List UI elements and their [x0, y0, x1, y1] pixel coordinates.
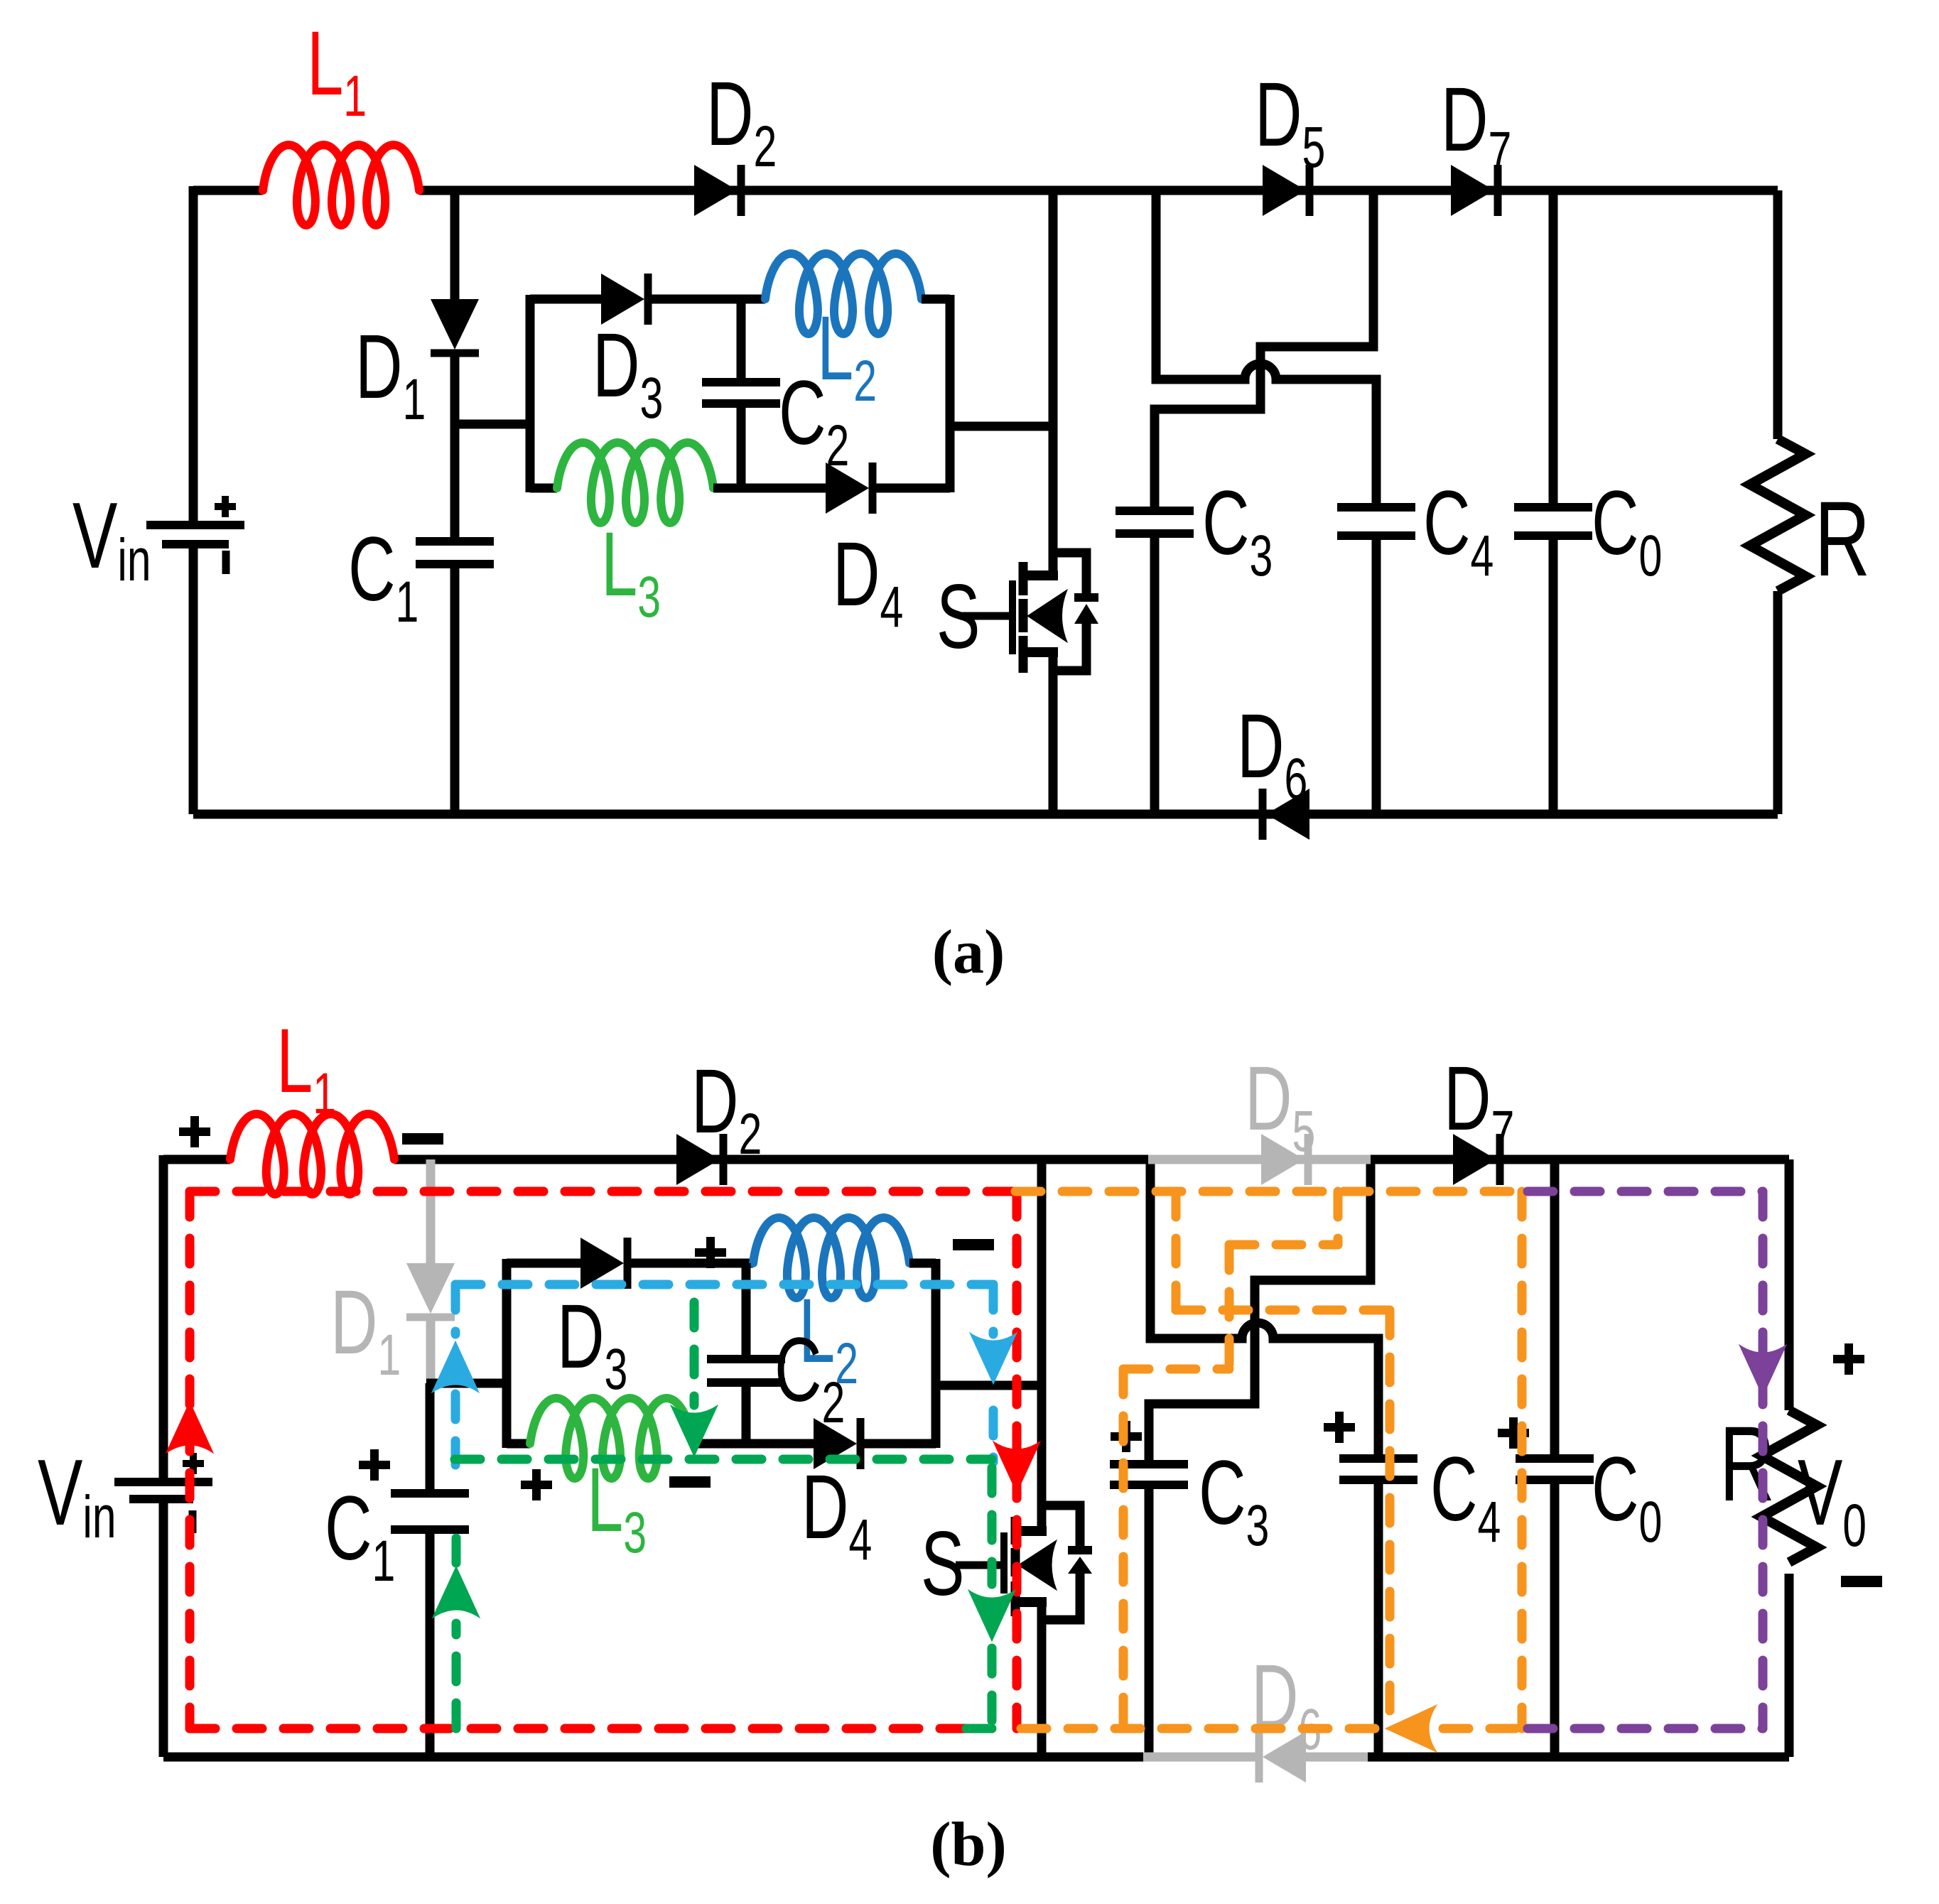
diode D6 [1259, 789, 1267, 840]
body diode [1074, 593, 1098, 602]
top rail wire right [1371, 1155, 1789, 1164]
svg-text:Vin: Vin [38, 1441, 116, 1551]
svg-text:L1: L1 [307, 12, 367, 129]
wire left rail upper [189, 186, 198, 521]
wire link C3 branch to D5-D7 node [1155, 186, 1373, 511]
wire D4 to cell right [873, 484, 950, 493]
diode D2 [676, 1134, 720, 1185]
svg-text:D6: D6 [1237, 695, 1307, 811]
diode D7 [1453, 1134, 1496, 1185]
resistor R [1761, 1410, 1817, 1562]
mosfet gate bar [1000, 1532, 1008, 1594]
svg-text:D1: D1 [330, 1271, 401, 1388]
mosfet gate bar [1009, 580, 1016, 654]
diode D6 greyed with wire [1143, 1753, 1259, 1762]
mosfet channel bar [1011, 1517, 1020, 1545]
cyan arrow up at node [432, 1341, 479, 1392]
mosfet arrow [1027, 590, 1067, 642]
mosfet bottom connection [1016, 1597, 1047, 1607]
wire C3 to bottom rail [1150, 534, 1160, 814]
diode D4 [814, 1418, 857, 1469]
capacitor C1 [416, 537, 494, 546]
red arrow up input side [166, 1402, 213, 1453]
capacitor C1 [391, 1489, 469, 1498]
capacitor C0 [1516, 1454, 1594, 1463]
inductor L2 [753, 1218, 909, 1298]
wire cell to switch drain [936, 1381, 1042, 1390]
cell left wire [526, 295, 535, 492]
current path green loop [455, 1455, 992, 1464]
capacitor C2 [737, 299, 746, 382]
svg-text:(a): (a) [932, 918, 1005, 987]
transistor S mosfet top connection [1026, 570, 1058, 580]
diode D3 [601, 274, 644, 325]
wire C1 to bottom rail [450, 564, 460, 814]
diode D5 [1263, 165, 1306, 216]
resistor R wires [1773, 190, 1783, 439]
inductor L3 [557, 443, 713, 523]
svg-text:C4: C4 [1430, 1438, 1501, 1554]
svg-text:D1: D1 [355, 315, 426, 432]
top rail wire [193, 186, 263, 195]
wire left rail lower [189, 548, 198, 814]
wire C0 branch [1550, 1159, 1560, 1459]
wire link C3 branch to D5-D7 node [1149, 1155, 1371, 1464]
plus mark C1 [359, 1461, 390, 1469]
top rail wire left [163, 1155, 230, 1164]
mosfet arrow [1018, 1540, 1057, 1590]
inductor L2 [765, 254, 922, 334]
diode D2 [694, 165, 738, 216]
body diode [1068, 1546, 1092, 1554]
purple arrow down at load [1739, 1345, 1786, 1396]
capacitor C3 [1116, 507, 1194, 515]
diode D1 [431, 299, 479, 350]
svg-text:R: R [1815, 480, 1870, 599]
plus mark L1 left [179, 1127, 210, 1136]
plus mark C4 [1324, 1423, 1355, 1432]
svg-text:D4: D4 [833, 523, 903, 639]
current path red loop [190, 1187, 1015, 1196]
wire C1 to bottom rail [426, 1530, 435, 1757]
wire L2 right end [909, 1259, 936, 1268]
wire D1 branch from top rail [450, 190, 460, 299]
inductor L1 [230, 1114, 394, 1194]
svg-text:D4: D4 [801, 1456, 872, 1572]
mosfet channel bar [1019, 562, 1028, 595]
diode D7 [1451, 165, 1494, 216]
wire C4 to bottom rail [1374, 1480, 1383, 1757]
capacitor C4 [1339, 1454, 1417, 1463]
svg-text:C1: C1 [348, 518, 418, 634]
switch S source wire [1049, 648, 1058, 814]
green arrow up at C1 [433, 1567, 480, 1618]
wire L3 to D4 [693, 1439, 814, 1449]
wire D3 to C2 top [648, 295, 765, 304]
battery Vin [146, 521, 244, 529]
cell top wire left [530, 295, 601, 304]
cell bottom wire left [530, 484, 557, 493]
cell bottom wire left [507, 1439, 530, 1449]
svg-text:C1: C1 [325, 1477, 395, 1594]
wire cell to switch drain [950, 422, 1053, 431]
orange arrow left at bottom [1386, 1705, 1437, 1752]
svg-text:C3: C3 [1199, 1441, 1269, 1558]
cell top wire left [507, 1259, 580, 1268]
svg-text:D3: D3 [557, 1285, 627, 1402]
svg-text:D6: D6 [1251, 1645, 1322, 1762]
plus mark C0 [1498, 1429, 1529, 1437]
plus mark output [1833, 1355, 1864, 1363]
svg-text:V0: V0 [1798, 1441, 1867, 1559]
cell right wire [931, 1259, 941, 1448]
svg-text:D2: D2 [691, 1050, 762, 1167]
svg-text:C0: C0 [1592, 472, 1662, 588]
svg-text:R: R [1719, 1405, 1775, 1524]
bottom rail wire [193, 810, 1778, 819]
wire L3 to D4 [713, 484, 826, 493]
capacitor C0 [1514, 503, 1592, 512]
wire D1 to node [450, 353, 460, 541]
green arrow down switch side [968, 1590, 1015, 1641]
wire C0 branch [1549, 190, 1558, 507]
svg-text:Vin: Vin [72, 484, 151, 594]
svg-text:S: S [936, 566, 980, 667]
diode D3 [580, 1238, 624, 1289]
svg-text:C0: C0 [1592, 1438, 1662, 1554]
minus mark L3 right [669, 1476, 711, 1488]
node wire to L2-C2 cell [450, 420, 530, 429]
diode D5 greyed with wire [1148, 1155, 1371, 1164]
switch S drain wire [1037, 1155, 1047, 1535]
wire C3 to bottom rail [1145, 1485, 1154, 1757]
svg-text:(b): (b) [930, 1810, 1007, 1879]
wire node to C1 [426, 1383, 435, 1493]
svg-text:L3: L3 [601, 513, 661, 629]
svg-text:D5: D5 [1255, 63, 1325, 180]
red arrow down switch side [993, 1441, 1040, 1493]
node wire to cell [426, 1379, 507, 1388]
svg-text:D3: D3 [593, 314, 663, 431]
wire C4 to bottom rail [1372, 536, 1381, 814]
wire C0 to bottom rail [1550, 1480, 1560, 1757]
mosfet bottom connection [1026, 647, 1058, 657]
resistor R [1750, 439, 1805, 591]
current path orange loop [1015, 1187, 1522, 1196]
mosfet top connection [1016, 1526, 1047, 1536]
svg-text:L1: L1 [276, 1010, 336, 1126]
svg-text:C3: C3 [1202, 472, 1273, 588]
body diode branch [1053, 553, 1086, 595]
cyan arrow down at drain link [970, 1333, 1017, 1384]
capacitor C3 [1110, 1460, 1188, 1468]
capacitor C2 [742, 1263, 751, 1359]
inductor L3 [530, 1398, 693, 1478]
capacitor C4 [1337, 503, 1415, 512]
wire C0 to bottom rail [1549, 536, 1558, 814]
wire D3 to C2 [627, 1259, 753, 1268]
body diode branch [1042, 1505, 1080, 1548]
svg-text:S: S [921, 1513, 964, 1614]
current path purple loop [1528, 1187, 1763, 1196]
plus mark C3 [1111, 1432, 1142, 1441]
svg-text:C4: C4 [1423, 472, 1494, 588]
bottom rail wire right [1368, 1753, 1789, 1762]
minus mark L2 right [953, 1239, 994, 1250]
switch S source wire [1037, 1598, 1047, 1757]
minus mark L1 right [402, 1133, 443, 1145]
resistor R wires [1785, 1159, 1794, 1410]
svg-text:D7: D7 [1444, 1047, 1514, 1164]
mosfet gate lead [961, 612, 1009, 620]
plus mark C2 top [695, 1248, 726, 1257]
diode D4 [826, 463, 869, 514]
mosfet gate lead [956, 1562, 1000, 1569]
svg-text:D7: D7 [1441, 68, 1511, 185]
wire D4 to cell right [860, 1439, 936, 1449]
cell right wire [946, 295, 955, 492]
wire left rail [159, 1155, 168, 1482]
svg-text:D5: D5 [1245, 1047, 1315, 1164]
inductor L1 [263, 145, 419, 225]
svg-text:D2: D2 [706, 63, 777, 179]
wire link C4 branch from top rail [1156, 186, 1376, 507]
current path cyan loop [455, 1280, 993, 1289]
minus mark output [1841, 1576, 1882, 1587]
plus mark L3 left [521, 1481, 552, 1489]
wire link C4 branch from top rail [1150, 1155, 1378, 1459]
green arrow down at L3 end [671, 1405, 718, 1456]
battery Vin [114, 1478, 212, 1486]
bottom rail wire left [163, 1753, 1143, 1762]
switch S drain wire [1049, 186, 1058, 580]
diode D1 greyed with wire [426, 1159, 436, 1263]
wire L2 right end [922, 295, 950, 304]
cell left wire [502, 1259, 512, 1448]
